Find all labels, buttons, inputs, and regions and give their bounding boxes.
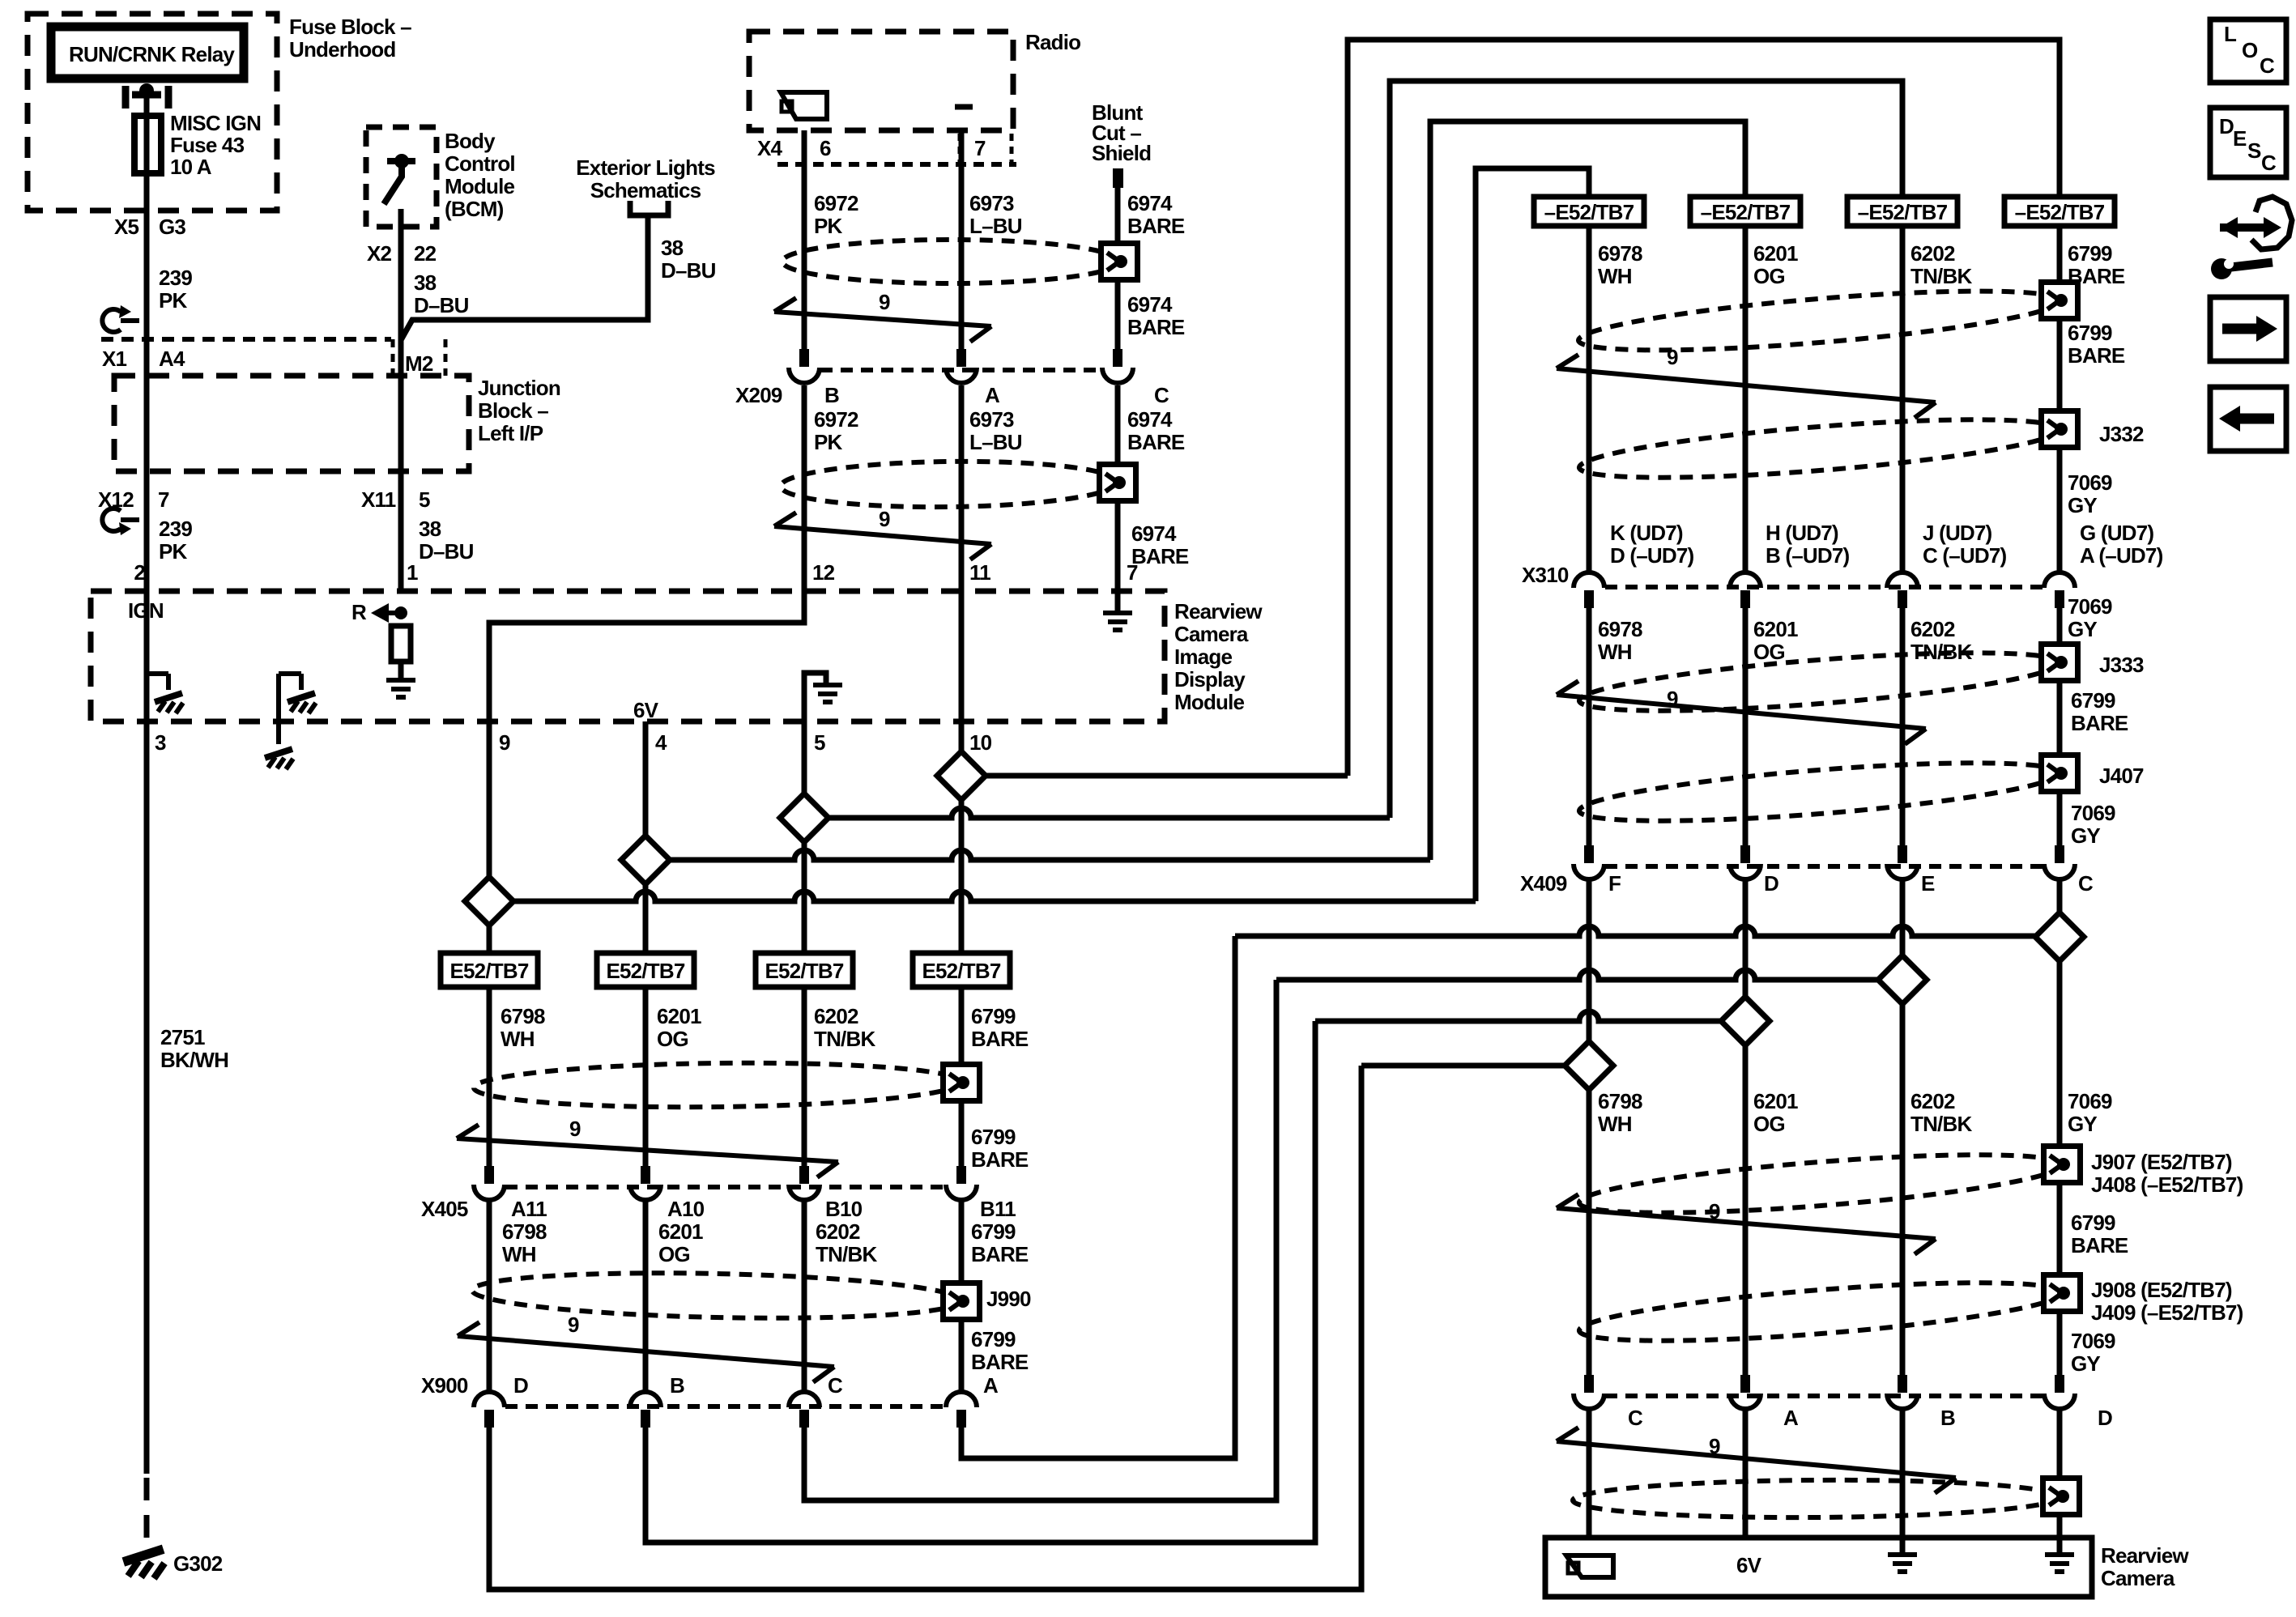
svg-text:TN/BK: TN/BK — [1910, 264, 1972, 288]
svg-text:Left I/P: Left I/P — [478, 421, 543, 445]
svg-text:6974: 6974 — [1127, 191, 1173, 215]
svg-text:J (UD7): J (UD7) — [1923, 521, 1992, 545]
svg-text:10: 10 — [969, 730, 992, 755]
svg-text:6974: 6974 — [1127, 407, 1173, 432]
svg-text:A: A — [1783, 1406, 1799, 1430]
svg-text:9: 9 — [1709, 1199, 1720, 1223]
svg-text:BARE: BARE — [2071, 1233, 2128, 1257]
svg-text:6201: 6201 — [1753, 1089, 1798, 1113]
svg-text:BARE: BARE — [971, 1242, 1029, 1266]
svg-text:B: B — [670, 1373, 684, 1398]
svg-text:–E52/TB7: –E52/TB7 — [1858, 200, 1948, 224]
svg-text:E52/TB7: E52/TB7 — [765, 959, 843, 983]
svg-text:X900: X900 — [421, 1373, 468, 1398]
svg-text:Junction: Junction — [478, 376, 560, 400]
svg-text:38: 38 — [661, 236, 684, 260]
svg-text:X5: X5 — [114, 215, 139, 239]
svg-text:A: A — [983, 1373, 999, 1398]
svg-text:WH: WH — [1598, 1112, 1632, 1136]
svg-text:9: 9 — [499, 730, 510, 755]
svg-text:WH: WH — [1598, 264, 1632, 288]
svg-text:GY: GY — [2071, 823, 2100, 848]
svg-text:D–BU: D–BU — [414, 293, 469, 317]
svg-text:9: 9 — [1709, 1434, 1720, 1458]
svg-text:X209: X209 — [735, 383, 782, 407]
svg-text:6202: 6202 — [1910, 617, 1955, 641]
svg-text:11: 11 — [969, 560, 990, 585]
svg-text:7069: 7069 — [2071, 801, 2115, 825]
svg-text:6798: 6798 — [502, 1219, 547, 1244]
svg-text:O: O — [2242, 38, 2258, 62]
svg-text:BARE: BARE — [1127, 214, 1185, 238]
svg-text:TN/BK: TN/BK — [1910, 1112, 1972, 1136]
svg-text:4: 4 — [655, 730, 667, 755]
svg-text:6202: 6202 — [814, 1004, 858, 1028]
svg-text:RUN/CRNK Relay: RUN/CRNK Relay — [69, 42, 235, 66]
svg-text:Schematics: Schematics — [590, 178, 701, 202]
svg-text:Fuse Block –: Fuse Block – — [289, 15, 411, 39]
svg-text:GY: GY — [2068, 1112, 2097, 1136]
svg-text:A10: A10 — [667, 1197, 705, 1221]
svg-text:6201: 6201 — [658, 1219, 703, 1244]
svg-text:239: 239 — [159, 517, 192, 541]
svg-text:Camera: Camera — [2101, 1566, 2175, 1590]
svg-text:J408 (–E52/TB7): J408 (–E52/TB7) — [2091, 1172, 2243, 1197]
svg-text:G3: G3 — [159, 215, 185, 239]
svg-text:9: 9 — [1667, 345, 1678, 369]
svg-text:E52/TB7: E52/TB7 — [449, 959, 528, 983]
svg-text:E: E — [2233, 126, 2247, 151]
svg-text:B (–UD7): B (–UD7) — [1766, 543, 1850, 568]
svg-text:C: C — [2261, 151, 2277, 175]
svg-text:D: D — [2219, 114, 2234, 138]
svg-text:B11: B11 — [980, 1197, 1016, 1221]
svg-text:A4: A4 — [159, 347, 185, 371]
svg-text:D (–UD7): D (–UD7) — [1610, 543, 1694, 568]
svg-text:Display: Display — [1174, 667, 1246, 691]
svg-text:6973: 6973 — [969, 407, 1014, 432]
svg-text:C: C — [828, 1373, 843, 1398]
svg-text:D: D — [513, 1373, 528, 1398]
svg-text:Shield: Shield — [1092, 141, 1151, 165]
svg-text:Underhood: Underhood — [289, 37, 395, 62]
svg-text:OG: OG — [658, 1242, 690, 1266]
svg-text:38: 38 — [419, 517, 441, 541]
svg-text:OG: OG — [1753, 264, 1785, 288]
svg-text:Rearview: Rearview — [1174, 599, 1263, 623]
svg-text:6799: 6799 — [2068, 321, 2112, 345]
svg-text:6799: 6799 — [971, 1004, 1016, 1028]
svg-text:–E52/TB7: –E52/TB7 — [1701, 200, 1791, 224]
svg-text:6972: 6972 — [814, 191, 858, 215]
svg-text:B: B — [824, 383, 839, 407]
svg-text:6V: 6V — [633, 698, 659, 722]
svg-text:A: A — [985, 383, 1000, 407]
svg-text:7069: 7069 — [2071, 1329, 2115, 1353]
svg-text:7069: 7069 — [2068, 594, 2112, 619]
svg-text:5: 5 — [814, 730, 825, 755]
svg-text:D–BU: D–BU — [661, 258, 716, 283]
svg-text:6202: 6202 — [816, 1219, 860, 1244]
svg-text:38: 38 — [414, 270, 437, 295]
svg-text:6972: 6972 — [814, 407, 858, 432]
svg-text:WH: WH — [502, 1242, 536, 1266]
svg-text:6798: 6798 — [1598, 1089, 1642, 1113]
svg-text:J990: J990 — [986, 1287, 1031, 1311]
svg-text:X409: X409 — [1520, 871, 1567, 896]
svg-text:X405: X405 — [421, 1197, 468, 1221]
svg-text:L: L — [2224, 22, 2237, 46]
svg-text:PK: PK — [159, 288, 188, 313]
svg-text:Rearview: Rearview — [2101, 1543, 2189, 1568]
svg-text:G (UD7): G (UD7) — [2080, 521, 2153, 545]
svg-text:6974: 6974 — [1131, 521, 1177, 546]
svg-text:Exterior Lights: Exterior Lights — [576, 155, 715, 180]
svg-text:6201: 6201 — [657, 1004, 701, 1028]
svg-text:D: D — [1764, 871, 1778, 896]
svg-text:X11: X11 — [361, 487, 396, 512]
svg-text:Radio: Radio — [1025, 30, 1080, 54]
svg-text:9: 9 — [569, 1117, 581, 1141]
svg-text:22: 22 — [414, 241, 437, 266]
svg-text:6202: 6202 — [1910, 241, 1955, 266]
svg-text:TN/BK: TN/BK — [816, 1242, 877, 1266]
svg-text:M2: M2 — [405, 351, 433, 376]
svg-text:GY: GY — [2068, 493, 2097, 517]
svg-text:6798: 6798 — [501, 1004, 545, 1028]
svg-text:9: 9 — [568, 1313, 579, 1337]
svg-text:F: F — [1608, 871, 1621, 896]
svg-text:X310: X310 — [1522, 563, 1569, 587]
svg-text:Camera: Camera — [1174, 622, 1249, 646]
svg-text:1: 1 — [407, 560, 418, 585]
svg-text:WH: WH — [1598, 640, 1632, 664]
svg-text:3: 3 — [155, 730, 166, 755]
svg-text:Image: Image — [1174, 645, 1232, 669]
svg-text:BARE: BARE — [971, 1350, 1029, 1374]
svg-text:IGN: IGN — [128, 598, 164, 623]
svg-text:Block –: Block – — [478, 398, 548, 423]
svg-text:C: C — [2260, 53, 2275, 78]
svg-text:7069: 7069 — [2068, 470, 2112, 495]
svg-text:C: C — [1628, 1406, 1643, 1430]
svg-text:6799: 6799 — [971, 1327, 1016, 1351]
svg-text:Module: Module — [1174, 690, 1245, 714]
svg-text:6799: 6799 — [971, 1125, 1016, 1149]
svg-text:GY: GY — [2068, 617, 2097, 641]
svg-text:S: S — [2247, 138, 2261, 163]
svg-text:C (–UD7): C (–UD7) — [1923, 543, 2007, 568]
svg-text:Module: Module — [445, 174, 515, 198]
svg-text:L–BU: L–BU — [969, 214, 1022, 238]
svg-text:D: D — [2098, 1406, 2112, 1430]
svg-text:(BCM): (BCM) — [445, 197, 504, 221]
svg-text:B10: B10 — [825, 1197, 863, 1221]
svg-text:OG: OG — [1753, 1112, 1785, 1136]
svg-text:MISC IGN: MISC IGN — [170, 111, 261, 135]
svg-text:6V: 6V — [1736, 1553, 1762, 1577]
svg-text:BARE: BARE — [1127, 315, 1185, 339]
svg-text:6201: 6201 — [1753, 617, 1798, 641]
svg-text:6201: 6201 — [1753, 241, 1798, 266]
svg-text:E52/TB7: E52/TB7 — [606, 959, 684, 983]
svg-text:B: B — [1940, 1406, 1955, 1430]
svg-text:BK/WH: BK/WH — [160, 1048, 228, 1072]
svg-text:6799: 6799 — [2071, 1211, 2115, 1235]
svg-text:Control: Control — [445, 151, 515, 176]
svg-text:7: 7 — [158, 487, 169, 512]
svg-text:2751: 2751 — [160, 1025, 205, 1049]
svg-text:7: 7 — [1127, 560, 1138, 585]
svg-text:BARE: BARE — [971, 1147, 1029, 1172]
svg-text:BARE: BARE — [2068, 343, 2125, 368]
svg-text:6799: 6799 — [2071, 688, 2115, 713]
svg-text:6973: 6973 — [969, 191, 1014, 215]
svg-text:6974: 6974 — [1127, 292, 1173, 317]
svg-text:7069: 7069 — [2068, 1089, 2112, 1113]
svg-text:6978: 6978 — [1598, 617, 1642, 641]
svg-text:6799: 6799 — [2068, 241, 2112, 266]
svg-text:Body: Body — [445, 129, 496, 153]
svg-text:J409 (–E52/TB7): J409 (–E52/TB7) — [2091, 1300, 2243, 1325]
svg-text:6978: 6978 — [1598, 241, 1642, 266]
svg-text:10 A: 10 A — [170, 155, 212, 179]
svg-text:–E52/TB7: –E52/TB7 — [1544, 200, 1634, 224]
svg-text:OG: OG — [1753, 640, 1785, 664]
svg-text:J407: J407 — [2099, 764, 2144, 788]
svg-text:PK: PK — [159, 539, 188, 564]
svg-text:2: 2 — [134, 560, 145, 585]
svg-text:6799: 6799 — [971, 1219, 1016, 1244]
svg-text:K (UD7): K (UD7) — [1610, 521, 1683, 545]
svg-text:7: 7 — [974, 136, 986, 160]
svg-text:H (UD7): H (UD7) — [1766, 521, 1838, 545]
svg-text:J907 (E52/TB7): J907 (E52/TB7) — [2091, 1150, 2232, 1174]
svg-text:X4: X4 — [757, 136, 783, 160]
svg-text:–E52/TB7: –E52/TB7 — [2015, 200, 2105, 224]
svg-text:PK: PK — [814, 214, 843, 238]
svg-text:L–BU: L–BU — [969, 430, 1022, 454]
svg-text:E52/TB7: E52/TB7 — [922, 959, 1000, 983]
svg-text:BARE: BARE — [2071, 711, 2128, 735]
svg-text:6202: 6202 — [1910, 1089, 1955, 1113]
svg-text:BARE: BARE — [1127, 430, 1185, 454]
svg-text:PK: PK — [814, 430, 843, 454]
svg-text:G302: G302 — [173, 1551, 223, 1576]
svg-text:X2: X2 — [367, 241, 392, 266]
svg-text:J908 (E52/TB7): J908 (E52/TB7) — [2091, 1278, 2232, 1302]
svg-text:WH: WH — [501, 1027, 535, 1051]
svg-text:BARE: BARE — [1131, 544, 1189, 568]
svg-text:C: C — [1154, 383, 1169, 407]
svg-text:A11: A11 — [511, 1197, 547, 1221]
svg-text:9: 9 — [879, 290, 890, 314]
svg-text:TN/BK: TN/BK — [814, 1027, 875, 1051]
svg-text:C: C — [2078, 871, 2094, 896]
svg-text:BARE: BARE — [971, 1027, 1029, 1051]
svg-text:R: R — [351, 600, 367, 624]
svg-text:Fuse 43: Fuse 43 — [170, 133, 245, 157]
svg-text:GY: GY — [2071, 1351, 2100, 1376]
svg-text:E: E — [1921, 871, 1935, 896]
svg-text:9: 9 — [1667, 687, 1678, 711]
svg-text:D–BU: D–BU — [419, 539, 474, 564]
svg-text:J333: J333 — [2099, 653, 2144, 677]
svg-text:12: 12 — [812, 560, 835, 585]
svg-text:5: 5 — [419, 487, 430, 512]
svg-text:9: 9 — [879, 507, 890, 531]
svg-text:239: 239 — [159, 266, 192, 290]
svg-text:A (–UD7): A (–UD7) — [2080, 543, 2163, 568]
svg-text:J332: J332 — [2099, 422, 2144, 446]
svg-text:OG: OG — [657, 1027, 688, 1051]
svg-text:6: 6 — [820, 136, 831, 160]
svg-text:X1: X1 — [102, 347, 127, 371]
